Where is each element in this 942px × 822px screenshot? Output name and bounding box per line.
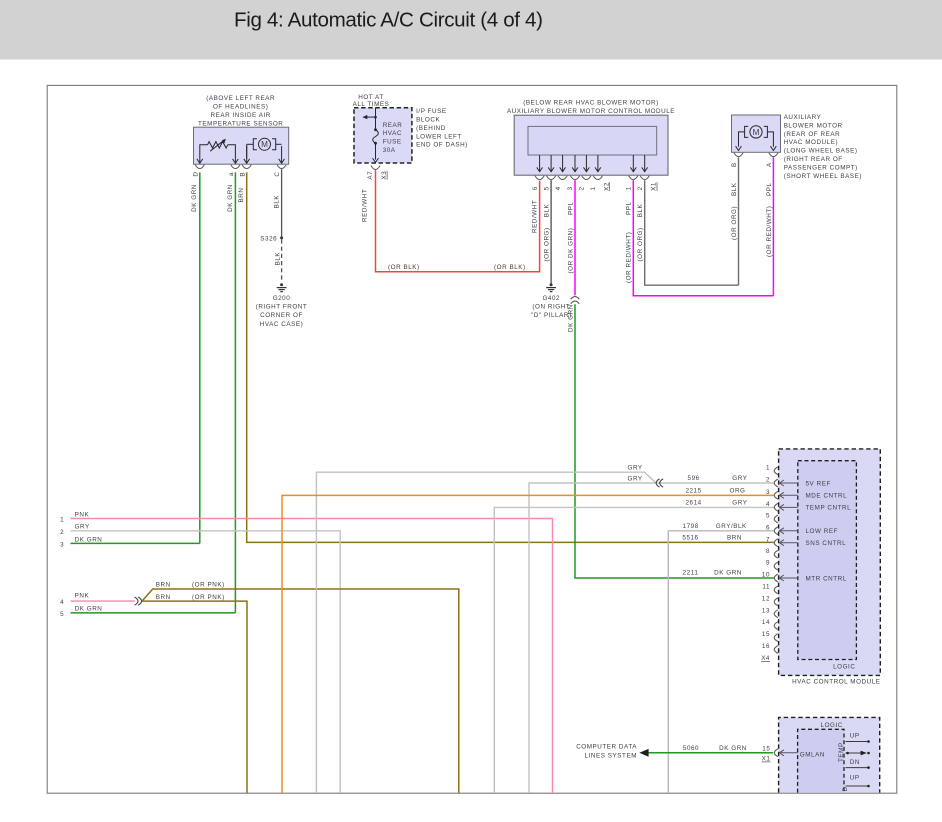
svg-text:END OF DASH): END OF DASH) <box>416 142 468 149</box>
svg-text:5060: 5060 <box>683 745 699 752</box>
svg-text:(OR ORG): (OR ORG) <box>731 206 738 240</box>
svg-text:DK GRN: DK GRN <box>75 605 103 612</box>
svg-text:D: D <box>842 786 849 791</box>
svg-text:UP: UP <box>850 732 860 739</box>
svg-text:4: 4 <box>60 599 64 606</box>
svg-text:B: B <box>239 172 246 177</box>
blower motor symbol <box>736 126 777 151</box>
svg-text:3: 3 <box>567 186 574 190</box>
blower pin bumps <box>734 153 778 157</box>
svg-text:(RIGHT REAR OF: (RIGHT REAR OF <box>784 156 843 163</box>
svg-text:4: 4 <box>766 501 770 508</box>
HVAC control module outer dashed box <box>779 449 881 676</box>
aux blower motor control module box <box>514 115 668 175</box>
svg-text:ORG: ORG <box>730 488 746 495</box>
svg-text:GRY: GRY <box>732 475 747 482</box>
svg-text:(BELOW REAR HVAC BLOWER MOTOR): (BELOW REAR HVAC BLOWER MOTOR) <box>523 100 659 107</box>
svg-text:Fig 4: Automatic A/C Circuit (: Fig 4: Automatic A/C Circuit (4 of 4) <box>234 9 543 32</box>
svg-text:11: 11 <box>762 584 770 591</box>
svg-text:M: M <box>261 140 268 149</box>
svg-text:LOW REF: LOW REF <box>806 528 839 535</box>
svg-text:BLOCK: BLOCK <box>416 117 440 124</box>
svg-text:HVAC CONTROL MODULE: HVAC CONTROL MODULE <box>792 678 880 685</box>
svg-text:MDE CNTRL: MDE CNTRL <box>806 493 848 500</box>
switch line 4 <box>846 785 870 788</box>
svg-text:(ON RIGHT: (ON RIGHT <box>532 304 570 311</box>
svg-text:REAR: REAR <box>383 122 403 129</box>
computer data arrow <box>639 749 648 757</box>
wire BLK module pin 5 to G402 <box>550 180 552 283</box>
GMLAN pin arrow <box>779 750 797 756</box>
svg-text:15: 15 <box>762 631 770 638</box>
svg-text:(OR RED/WHT): (OR RED/WHT) <box>626 232 633 283</box>
svg-text:1: 1 <box>60 517 64 524</box>
temperature sensor box <box>194 127 289 164</box>
svg-text:BRN: BRN <box>156 582 171 589</box>
svg-text:TEMP: TEMP <box>838 742 845 762</box>
svg-text:HVAC: HVAC <box>383 130 402 137</box>
wire DK GRN 5060 computer data lines <box>648 752 773 754</box>
fuse block feed wire <box>366 108 376 129</box>
svg-text:1: 1 <box>626 186 633 190</box>
svg-text:BLOWER MOTOR: BLOWER MOTOR <box>784 122 843 129</box>
svg-text:S326: S326 <box>260 235 277 242</box>
module pin arrows <box>537 155 648 172</box>
switch wiper arm <box>846 751 870 756</box>
svg-text:LOWER LEFT: LOWER LEFT <box>416 133 462 140</box>
svg-text:15: 15 <box>762 745 770 752</box>
svg-text:596: 596 <box>688 475 700 482</box>
svg-text:(REAR OF REAR: (REAR OF REAR <box>784 131 840 138</box>
svg-text:BLK: BLK <box>637 203 644 217</box>
switch line 3 <box>846 766 870 769</box>
svg-text:BLK: BLK <box>273 195 280 209</box>
svg-text:(OR ORG): (OR ORG) <box>637 227 644 261</box>
svg-text:BRN: BRN <box>238 188 245 203</box>
G200 label <box>256 295 308 328</box>
GMLAN inner dashed box <box>798 729 844 792</box>
svg-text:ALL TIMES: ALL TIMES <box>353 101 390 108</box>
module pin bumps <box>535 176 649 180</box>
HVAC pin bumps 1-16 <box>774 467 778 654</box>
I/P fuse block dashed box <box>354 108 412 163</box>
svg-text:CORNER OF: CORNER OF <box>260 312 303 319</box>
svg-text:2: 2 <box>60 529 64 536</box>
svg-text:DN: DN <box>850 759 860 766</box>
wire DK GRN sensor pin a vertical <box>234 172 236 613</box>
svg-text:14: 14 <box>762 619 770 626</box>
resistor (sensor thermistor) <box>200 139 236 159</box>
svg-text:BRN: BRN <box>727 535 742 542</box>
svg-text:30A: 30A <box>383 147 396 154</box>
svg-text:HVAC CASE): HVAC CASE) <box>260 321 304 328</box>
wire BLK module pin 2 (X1) to blower pin B <box>645 180 739 285</box>
module inner box <box>528 126 657 155</box>
wire 4 PNK from left edge <box>71 600 136 602</box>
svg-text:GMLAN: GMLAN <box>800 752 825 759</box>
svg-text:D: D <box>192 171 199 176</box>
wire DK GRN sensor pin D vertical <box>199 172 201 543</box>
svg-text:DK GRN: DK GRN <box>191 184 198 212</box>
title bar <box>0 0 942 60</box>
svg-text:B: B <box>731 162 738 167</box>
svg-text:5V REF: 5V REF <box>806 480 831 487</box>
fuse block branch arrow <box>362 115 367 119</box>
HOT AT ALL TIMES label <box>353 94 390 108</box>
svg-text:X2: X2 <box>603 182 610 191</box>
wire 1 PNK from left edge <box>71 519 553 794</box>
svg-text:PPL: PPL <box>766 182 773 196</box>
wire 2 GRY from left edge <box>71 531 341 793</box>
wire DK GRN from connector down to HVAC pin 10 <box>575 304 774 578</box>
svg-text:BRN: BRN <box>156 594 171 601</box>
svg-text:BLK: BLK <box>275 252 282 266</box>
svg-text:"D" PILLAR): "D" PILLAR) <box>531 312 572 319</box>
svg-text:LOGIC: LOGIC <box>833 663 855 670</box>
svg-text:M: M <box>753 128 760 137</box>
svg-text:OF HEADLINES): OF HEADLINES) <box>213 103 268 110</box>
svg-text:5: 5 <box>543 186 550 190</box>
svg-text:GRY: GRY <box>628 475 643 482</box>
svg-text:RED/WHT: RED/WHT <box>362 189 369 222</box>
svg-text:MTR CNTRL: MTR CNTRL <box>806 575 847 582</box>
svg-text:(OR ORG): (OR ORG) <box>544 227 551 261</box>
svg-text:AUXILIARY BLOWER MOTOR CONTROL: AUXILIARY BLOWER MOTOR CONTROL MODULE <box>507 108 675 115</box>
diagram frame <box>47 85 897 793</box>
ground G402 <box>546 283 556 291</box>
svg-text:(OR PNK): (OR PNK) <box>192 582 225 589</box>
sensor pin connector bumps <box>195 165 286 169</box>
svg-text:a: a <box>228 172 235 176</box>
blower pin letters B A <box>731 162 773 167</box>
wire GRY/BLK to HVAC pin 6 <box>668 531 774 793</box>
svg-text:TEMPERATURE SENSOR: TEMPERATURE SENSOR <box>198 121 283 128</box>
svg-text:8: 8 <box>766 548 770 555</box>
svg-text:1: 1 <box>766 464 770 471</box>
wire BRN lower branch from connector <box>142 601 247 793</box>
svg-text:DK GRN: DK GRN <box>719 745 747 752</box>
inline connector on GRY wires <box>656 479 663 487</box>
switch line 1 <box>846 740 870 743</box>
wire GRY to splice (lower) then 596 GRY to HVAC pin 2 <box>529 483 774 793</box>
svg-text:AUXILIARY: AUXILIARY <box>784 114 822 121</box>
svg-text:TEMP CNTRL: TEMP CNTRL <box>806 505 852 512</box>
svg-text:A7: A7 <box>367 171 374 180</box>
svg-text:X1: X1 <box>762 756 771 763</box>
wire RED/WHT from fuse to module pin 6 <box>376 170 540 272</box>
svg-text:UP: UP <box>850 774 860 781</box>
svg-text:1798: 1798 <box>683 523 699 530</box>
HVAC pin arrows into logic <box>779 480 797 581</box>
svg-text:5: 5 <box>766 513 770 520</box>
svg-text:PNK: PNK <box>75 593 90 600</box>
svg-text:FUSE: FUSE <box>383 139 402 146</box>
svg-text:(BEHIND: (BEHIND <box>416 125 446 132</box>
sensor pin arrows <box>197 144 285 163</box>
svg-text:GRY: GRY <box>628 464 643 471</box>
fuse block location label <box>416 108 468 149</box>
fuse REAR HVAC FUSE 30A <box>373 130 379 163</box>
wire BRN sensor pin B vertical, turns right to HVAC pin 7 <box>247 172 774 542</box>
inline connector on pin 3 wire <box>571 297 580 304</box>
COMPUTER DATA LINES SYSTEM label <box>576 744 637 760</box>
svg-text:HOT AT: HOT AT <box>358 94 383 101</box>
svg-text:PPL: PPL <box>567 201 574 215</box>
wire PPL blower pin A <box>772 157 774 295</box>
G402 label <box>531 295 572 319</box>
svg-text:LOGIC: LOGIC <box>821 722 843 729</box>
wire 5 DK GRN from left edge to sensor pin a <box>71 612 236 614</box>
svg-text:(OR RED/WHT): (OR RED/WHT) <box>766 206 773 257</box>
svg-text:13: 13 <box>762 607 770 614</box>
svg-text:PPL: PPL <box>626 201 633 215</box>
aux blower motor control module label <box>507 100 675 115</box>
svg-text:X3: X3 <box>381 171 388 180</box>
svg-text:(OR BLK): (OR BLK) <box>388 264 420 271</box>
svg-text:GRY/BLK: GRY/BLK <box>716 523 747 530</box>
svg-text:(SHORT WHEEL BASE): (SHORT WHEEL BASE) <box>784 173 862 180</box>
wire PPL module pin 1 (X1) to blower pin A <box>633 180 773 296</box>
HVAC control module inner dashed box (LOGIC) <box>798 461 857 660</box>
splice S326 <box>280 236 283 239</box>
wire GRY to HVAC pin 4 <box>494 507 774 793</box>
fuse value label <box>383 122 403 154</box>
svg-text:PNK: PNK <box>75 511 90 518</box>
svg-text:2215: 2215 <box>685 488 701 495</box>
svg-text:I/P FUSE: I/P FUSE <box>416 108 447 115</box>
svg-text:5: 5 <box>60 611 64 618</box>
svg-text:A: A <box>766 162 773 167</box>
svg-text:C: C <box>274 171 281 176</box>
svg-text:2: 2 <box>766 477 770 484</box>
module pin numbers 6 5 4 3 2 1 / X2 <box>532 182 658 191</box>
svg-text:6: 6 <box>766 524 770 531</box>
svg-text:(LONG WHEEL BASE): (LONG WHEEL BASE) <box>784 148 858 155</box>
wire PPL module pin 3 (X2) <box>574 180 576 295</box>
motor M (sensor aspirator) <box>247 138 282 150</box>
sensor pin letters D a B C <box>192 171 281 176</box>
GMLAN module outer dashed box <box>779 717 880 792</box>
svg-text:12: 12 <box>762 595 770 602</box>
svg-text:BLK: BLK <box>731 182 738 196</box>
svg-text:DK GRN: DK GRN <box>227 184 234 212</box>
wire ORG to HVAC pin 3 <box>282 495 774 793</box>
wire BLK sensor pin C vertical <box>281 169 283 236</box>
svg-text:COMPUTER DATA: COMPUTER DATA <box>576 744 637 751</box>
wire 3 DK GRN from left edge to sensor pin D <box>71 542 200 544</box>
svg-text:HVAC MODULE): HVAC MODULE) <box>784 139 838 146</box>
HVAC pin numbers <box>762 464 770 650</box>
svg-text:4: 4 <box>555 186 562 190</box>
svg-text:(RIGHT FRONT: (RIGHT FRONT <box>256 304 308 311</box>
temperature sensor label <box>198 95 283 128</box>
wire BLK blower pin B <box>738 157 740 285</box>
fuse pin bump <box>371 166 380 170</box>
svg-text:7: 7 <box>766 536 770 543</box>
svg-text:5516: 5516 <box>682 535 698 542</box>
svg-text:9: 9 <box>766 560 770 567</box>
svg-text:2: 2 <box>637 186 644 190</box>
svg-text:G402: G402 <box>542 295 560 302</box>
svg-text:X1: X1 <box>651 182 658 191</box>
svg-text:3: 3 <box>60 541 64 548</box>
wire BRN upper branch from connector <box>142 589 459 793</box>
svg-text:G200: G200 <box>273 295 291 302</box>
svg-text:DK GRN: DK GRN <box>567 304 574 332</box>
aux blower motor label <box>784 114 862 180</box>
svg-text:2614: 2614 <box>685 500 701 507</box>
inline connector on wire 4 <box>135 597 142 605</box>
svg-text:2211: 2211 <box>683 570 699 577</box>
svg-text:1: 1 <box>590 186 597 190</box>
ground G200 <box>277 283 287 291</box>
svg-text:6: 6 <box>532 186 539 190</box>
svg-text:16: 16 <box>762 643 770 650</box>
svg-text:BLK: BLK <box>544 203 551 217</box>
svg-text:GRY: GRY <box>75 524 90 531</box>
svg-text:(ABOVE LEFT REAR: (ABOVE LEFT REAR <box>206 95 275 102</box>
svg-text:GRY: GRY <box>732 500 747 507</box>
svg-text:10: 10 <box>762 572 770 579</box>
svg-text:RED/WHT: RED/WHT <box>531 200 538 233</box>
svg-text:2: 2 <box>579 186 586 190</box>
wire BLK dashed below S326 <box>281 239 283 281</box>
svg-text:(OR DK GRN): (OR DK GRN) <box>567 228 574 274</box>
svg-text:REAR INSIDE AIR: REAR INSIDE AIR <box>211 112 271 119</box>
svg-text:DK GRN: DK GRN <box>75 536 103 543</box>
svg-text:(OR PNK): (OR PNK) <box>192 594 225 601</box>
svg-text:LINES SYSTEM: LINES SYSTEM <box>585 753 637 760</box>
wire GRY to splice (upper) <box>316 472 656 793</box>
junction dot <box>374 116 377 119</box>
svg-text:PASSENGER COMPT): PASSENGER COMPT) <box>784 164 858 171</box>
GMLAN pin bump 15 <box>774 749 778 757</box>
svg-text:X4: X4 <box>761 655 770 662</box>
aux blower motor box <box>732 115 781 152</box>
svg-text:SNS CNTRL: SNS CNTRL <box>806 540 847 547</box>
svg-text:DK GRN: DK GRN <box>714 570 742 577</box>
svg-text:3: 3 <box>766 489 770 496</box>
svg-text:(OR BLK): (OR BLK) <box>494 264 526 271</box>
HVAC logic labels <box>806 480 852 582</box>
